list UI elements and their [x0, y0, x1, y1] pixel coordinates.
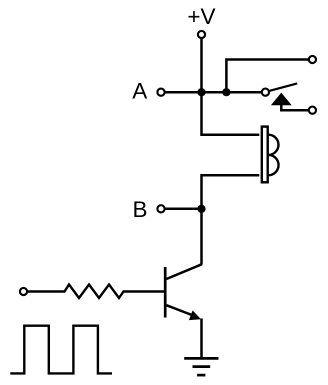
transistor Q1 collector lead	[166, 264, 202, 279]
node B junction dot	[197, 205, 205, 213]
wire branch up to upper contact	[226, 60, 308, 93]
relay coil rectangle	[262, 127, 268, 183]
terminal +V	[198, 31, 205, 38]
resistor R1	[60, 285, 128, 299]
input square-wave symbol	[10, 326, 112, 374]
switch moving-contact arrow	[271, 93, 292, 106]
relay coil lower arc	[268, 155, 278, 175]
ground bar 2	[193, 365, 211, 368]
wire emitter to ground	[200, 319, 203, 359]
wire terminal B to node B	[165, 208, 201, 211]
terminal B	[157, 205, 164, 212]
wire resistor R1 to transistor base	[128, 290, 164, 293]
wire +V to node A	[200, 39, 203, 93]
wire node B to transistor collector	[200, 209, 203, 265]
wire input terminal to resistor R1	[28, 290, 60, 293]
junction dot switch branch	[222, 88, 230, 96]
transistor Q1 emitter lead	[166, 305, 197, 317]
input terminal	[20, 288, 27, 295]
ground bar 3	[197, 374, 205, 377]
svg-text:+V: +V	[187, 4, 215, 29]
wire arrow to lower contact	[281, 105, 308, 111]
wire terminal A to node A	[165, 91, 201, 94]
relay coil upper arc	[268, 135, 278, 155]
svg-text:B: B	[132, 197, 147, 222]
svg-text:A: A	[132, 79, 147, 104]
switch pivot circle	[262, 89, 269, 96]
ground bar 1	[184, 357, 218, 360]
terminal A	[157, 89, 164, 96]
node A junction dot	[197, 88, 205, 96]
terminal upper switch contact	[309, 56, 316, 63]
wire relay coil bottom to node B	[202, 175, 260, 209]
transistor Q1 base bar	[164, 267, 167, 318]
transistor Q1 emitter arrow	[189, 310, 201, 320]
switch arm	[270, 83, 298, 90]
wire node A down and right to relay coil top	[202, 92, 260, 135]
terminal lower switch contact	[309, 107, 316, 114]
wire node A to switch pivot	[202, 91, 261, 94]
